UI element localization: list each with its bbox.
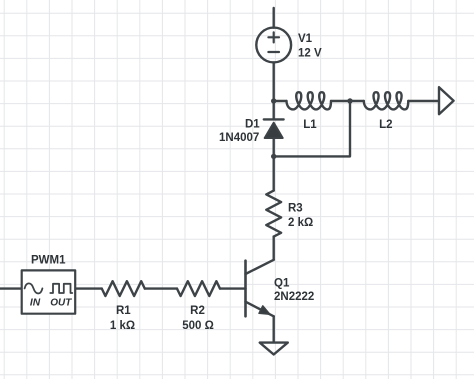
svg-text:IN: IN	[30, 298, 41, 309]
PWM1 sine symbol	[25, 283, 43, 293]
wire R1 to R2	[145, 287, 177, 289]
wire PWM1 to R1	[76, 287, 102, 289]
wire diode anode down through node to R3	[273, 139, 275, 191]
svg-text:Q1: Q1	[274, 277, 290, 289]
svg-text:12 V: 12 V	[298, 48, 322, 60]
svg-text:L1: L1	[303, 119, 317, 131]
svg-text:R3: R3	[288, 203, 303, 215]
svg-text:500 Ω: 500 Ω	[182, 320, 214, 332]
transistor Q1 emitter arrowhead	[259, 306, 270, 314]
svg-text:R2: R2	[190, 305, 205, 317]
wire V1 bottom to diode cathode	[273, 62, 275, 119]
svg-text:2 kΩ: 2 kΩ	[288, 217, 313, 229]
transistor Q1 base bar	[244, 261, 247, 317]
wire R3 to collector	[273, 237, 275, 260]
svg-text:OUT: OUT	[50, 298, 72, 309]
resistor R3 zigzag	[266, 191, 281, 237]
transistor Q1 emitter diagonal	[246, 302, 274, 317]
svg-text:D1: D1	[245, 119, 260, 131]
svg-text:PWM1: PWM1	[31, 255, 66, 267]
resistor R2 zigzag	[177, 281, 220, 296]
wire top stub above V1	[273, 8, 275, 28]
svg-text:L2: L2	[379, 119, 392, 131]
inductor L2	[364, 92, 409, 109]
wire L1 to L2	[331, 100, 364, 102]
wire junction to L1	[274, 100, 287, 102]
diode D1 cathode bar	[264, 118, 284, 120]
PWM1 box	[22, 270, 75, 313]
resistor R1 zigzag	[102, 281, 145, 296]
junction dot at L1/L2 node	[347, 98, 352, 103]
svg-text:R1: R1	[116, 305, 131, 317]
V1 plus sign	[268, 32, 279, 42]
output port arrow	[439, 87, 454, 114]
svg-text:2N2222: 2N2222	[274, 291, 314, 303]
ground symbol	[260, 343, 288, 355]
wire R2 to Q1 base	[220, 287, 246, 289]
wire L2 to output port	[408, 100, 439, 102]
V1 minus sign	[268, 51, 279, 53]
junction dot at V1/L1 node	[271, 98, 276, 103]
inductor L1	[287, 92, 332, 109]
svg-text:1N4007: 1N4007	[219, 132, 259, 144]
wire emitter to ground	[273, 316, 275, 341]
svg-text:V1: V1	[298, 33, 313, 45]
junction dot at diode anode node	[271, 154, 276, 159]
svg-text:1 kΩ: 1 kΩ	[110, 320, 135, 332]
voltage source V1	[256, 28, 291, 63]
wire node to down-corner to diode anode node	[274, 101, 350, 156]
wire into PWM1 from left edge	[0, 287, 21, 289]
PWM1 square wave symbol	[50, 284, 72, 293]
transistor Q1 collector diagonal	[246, 260, 274, 274]
diode D1 triangle	[265, 123, 283, 138]
